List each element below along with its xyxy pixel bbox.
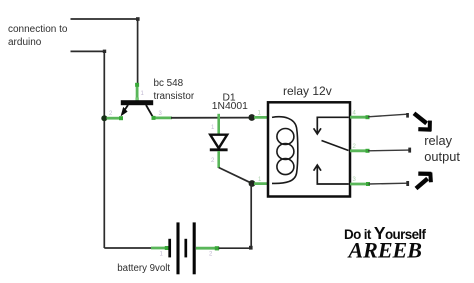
annotation arrow (bottom output) [416, 173, 431, 189]
svg-text:relay: relay [424, 133, 452, 148]
wire left vertical rail [103, 51, 105, 248]
relay K1 pin 2 stub (green) [350, 149, 370, 153]
diode D1 anode stub (green) [217, 114, 220, 135]
svg-text:AREEB: AREEB [347, 237, 422, 262]
wire relay NC output lead [368, 113, 409, 118]
diode D1 symbol [210, 135, 228, 150]
svg-text:transistor: transistor [154, 91, 195, 102]
svg-text:bc 548: bc 548 [154, 78, 184, 89]
node wire-A corner [136, 17, 140, 21]
battery BT1 negative stub (green) [151, 246, 169, 250]
wire J2 down to battery positive [250, 184, 252, 249]
wire arduino signal vertical to base [137, 19, 139, 84]
transistor Q1 base pin stub (green) [135, 83, 139, 101]
relay K1 body [268, 102, 350, 196]
transistor Q1 body (BC548) [121, 100, 154, 117]
svg-text:connection to: connection to [8, 24, 68, 35]
logo: DoItYourself [344, 223, 427, 262]
node junction J0 (emitter / left rail) [101, 115, 107, 121]
relay K1 coil pin 1 stub (green) [254, 116, 272, 119]
svg-text:arduino: arduino [8, 37, 42, 48]
battery BT1 positive stub (green) [196, 246, 220, 250]
relay K1 coil pin 2 stub (green) [254, 182, 272, 185]
wire relay NO output lead [369, 181, 410, 186]
svg-text:relay 12v: relay 12v [283, 84, 332, 98]
annotation arrow (top output) [414, 113, 431, 131]
wire battery bottom right [219, 247, 251, 249]
wire diode cathode to junction J2 (diagonal) [219, 168, 252, 184]
relay K1 switch (SPDT contacts) [314, 117, 349, 184]
node battery-right corner [249, 246, 253, 250]
battery BT1 symbol (9V, two cells) [170, 222, 195, 274]
svg-text:battery 9volt: battery 9volt [117, 263, 170, 274]
relay K1 coil [272, 117, 298, 184]
node wire-B corner [103, 50, 106, 53]
wire relay COM output lead [368, 148, 411, 153]
svg-text:output: output [424, 149, 460, 164]
transistor Q1 collector stub (green) [152, 116, 173, 120]
wire battery bottom left [104, 247, 152, 249]
diode D1 cathode stub (green) [217, 151, 220, 168]
wire arduino ground horizontal [71, 50, 105, 52]
relay K1 pin 3 stub (green) [350, 182, 370, 186]
wire collector to relay pin (net across diode) [171, 117, 252, 119]
transistor Q1 emitter stub to rail (green) [107, 116, 124, 120]
svg-text:1N4001: 1N4001 [212, 101, 248, 112]
node junction J1 (collector net / relay coil pin) [248, 114, 255, 121]
relay K1 pin 4 stub (green) [350, 115, 370, 119]
node junction J2 (coil return) [249, 180, 256, 187]
wire arduino signal horizontal [71, 18, 139, 20]
